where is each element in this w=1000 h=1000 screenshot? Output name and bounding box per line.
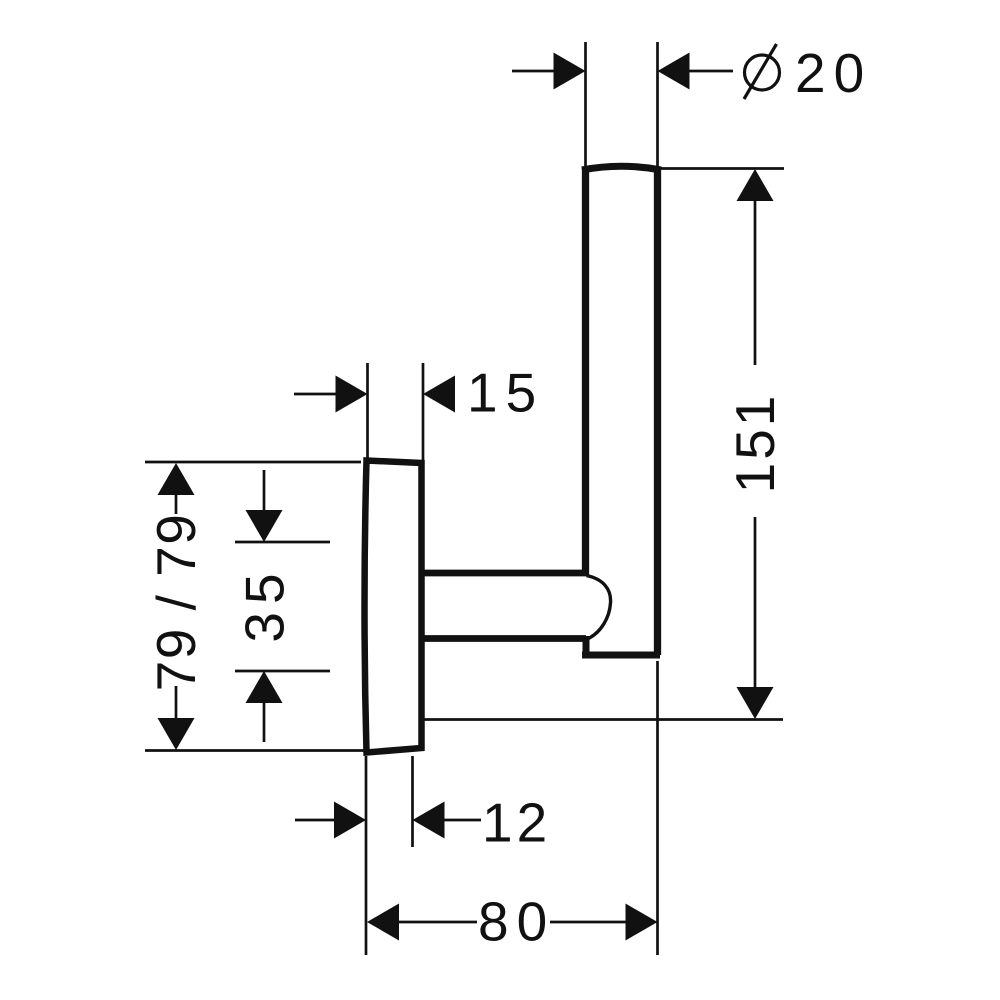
- post top cap: [582, 166, 661, 170]
- dim79 top arrow: [158, 463, 195, 495]
- arm-to-post stub: [583, 636, 590, 655]
- dim79 bottom arrow: [158, 718, 195, 750]
- dim80 right extension line: [656, 661, 659, 955]
- dim15 right arrow: [423, 376, 455, 413]
- post bottom cap: [582, 652, 660, 659]
- dim151 top arrow: [737, 169, 774, 201]
- arm bottom edge: [420, 635, 586, 642]
- dim35 lower arrow: [246, 671, 283, 703]
- dim151 bottom arrow: [737, 687, 774, 719]
- svg-text:15: 15: [467, 362, 544, 424]
- dim15 left tail: [294, 393, 336, 396]
- dim35 lower tail: [263, 701, 266, 742]
- svg-text:35: 35: [234, 565, 296, 642]
- dim79 lower line: [175, 686, 178, 723]
- dim80 left line: [398, 921, 477, 924]
- dim35 upper arrow: [246, 510, 283, 542]
- dim12 right arrow: [413, 802, 445, 839]
- post right edge: [654, 168, 661, 655]
- dim80 right line: [550, 921, 626, 924]
- dim80 right arrow: [626, 904, 658, 941]
- dia20 left arrow: [554, 53, 586, 90]
- dia20 left tail: [512, 70, 554, 73]
- dim12 left tail: [295, 819, 335, 822]
- svg-text:151: 151: [724, 393, 786, 494]
- dim35 top extension line: [235, 541, 330, 544]
- dim79 upper line: [175, 494, 178, 514]
- svg-text:12: 12: [482, 792, 551, 854]
- arm top edge: [420, 570, 588, 577]
- dim80 left arrow: [367, 904, 399, 941]
- dim12 left arrow: [334, 802, 366, 839]
- dim12 right extension line: [411, 756, 414, 847]
- dim151 top extension line: [660, 167, 784, 170]
- dim15 right extension line: [422, 363, 425, 461]
- dim151 bottom extension line: [424, 718, 783, 721]
- diameter symbol circle: [745, 55, 780, 90]
- dim15 left extension line: [366, 363, 369, 458]
- dia20 right extension line: [656, 42, 659, 166]
- bullnose fillet curve: [587, 576, 611, 639]
- dim12 left extension line (shared with dim80): [365, 756, 368, 955]
- dim151 lower line: [754, 517, 757, 687]
- dia20 left extension line: [584, 42, 587, 166]
- dia20 right tail: [690, 70, 734, 73]
- dim35 bottom extension line: [235, 670, 330, 673]
- dim15 left arrow: [336, 376, 368, 413]
- dia20 right arrow: [658, 53, 690, 90]
- post left edge: [582, 168, 589, 575]
- dim79 bottom extension line: [145, 749, 364, 752]
- dim151 upper line: [754, 200, 757, 365]
- svg-text:79 / 79: 79 / 79: [145, 513, 207, 692]
- svg-text:80: 80: [478, 891, 555, 953]
- diameter symbol slash: [744, 44, 777, 99]
- dim35 upper tail: [263, 470, 266, 512]
- dim12 right tail: [445, 819, 482, 822]
- dim79 top extension line: [145, 461, 361, 464]
- svg-text:20: 20: [795, 42, 872, 104]
- wall plate (escutcheon side view): [365, 461, 422, 753]
